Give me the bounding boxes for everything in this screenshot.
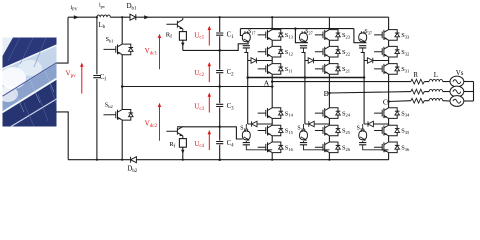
switch S12 bbox=[258, 46, 283, 57]
wire aux vertical 3 bbox=[363, 53, 365, 125]
switch S14 bbox=[258, 108, 283, 119]
capacitor C4 bbox=[216, 142, 223, 144]
wire PV positive stub bbox=[57, 17, 69, 63]
source Vs B bbox=[450, 86, 464, 97]
node bottom rail junction bbox=[271, 159, 273, 161]
diode clamp upper 2 bbox=[305, 60, 330, 62]
wire PV negative stub bbox=[57, 112, 69, 160]
svg-text:L: L bbox=[434, 72, 438, 79]
wire top rail bbox=[68, 16, 389, 18]
diode Db2 bbox=[131, 157, 137, 163]
arrow Vdc2 bbox=[159, 106, 161, 141]
wire bottom rail bbox=[68, 159, 389, 161]
transistor balancing lower bbox=[166, 127, 183, 136]
source Vs A bbox=[450, 76, 464, 87]
svg-text:C: C bbox=[383, 98, 388, 107]
capacitor C2 bbox=[216, 71, 223, 73]
capacitor flying upper 2 bbox=[300, 46, 307, 48]
switch S37 bbox=[359, 31, 367, 43]
resistor grid B bbox=[411, 89, 424, 94]
svg-text:R: R bbox=[413, 72, 418, 79]
switch S15 bbox=[258, 125, 283, 136]
node dc column mid bbox=[218, 85, 221, 88]
diode Db1 bbox=[130, 14, 136, 20]
switch S24 bbox=[315, 108, 340, 119]
wire phase 3 stack bbox=[388, 17, 390, 160]
node output B bbox=[328, 92, 331, 95]
switch S22 bbox=[315, 46, 340, 57]
diode clamp upper 3 bbox=[364, 60, 389, 62]
wire source B right bbox=[464, 91, 474, 93]
switch S13 bbox=[258, 30, 283, 41]
switch S17 bbox=[242, 31, 250, 43]
arrow Uc4 bbox=[208, 133, 210, 150]
switch S18 bbox=[242, 129, 250, 141]
node bottom rail junction bbox=[96, 159, 98, 161]
switch S23 bbox=[315, 30, 340, 41]
switch S35 bbox=[374, 125, 399, 136]
wire Rf lower to bottom rail bbox=[182, 147, 184, 160]
wire source C right bbox=[464, 100, 474, 102]
capacitor C1 bbox=[216, 33, 223, 35]
node stack A top bbox=[271, 16, 273, 18]
capacitor flying lower 2 bbox=[300, 143, 307, 145]
arrow current iPV bbox=[74, 15, 79, 19]
node dc column top bbox=[219, 16, 221, 18]
arrow Uc2 bbox=[208, 65, 210, 82]
inductor Lb bbox=[97, 15, 111, 17]
capacitor flying lower 1 bbox=[243, 143, 250, 145]
switch Sb2 bbox=[121, 87, 123, 160]
wire aux corner A bbox=[240, 29, 243, 36]
resistor grid C bbox=[411, 98, 424, 103]
switch S25 bbox=[315, 125, 340, 136]
node top rail junction bbox=[96, 16, 98, 18]
switch S33 bbox=[374, 30, 399, 41]
node upper bus B bbox=[294, 27, 297, 30]
source Vs C bbox=[450, 96, 464, 107]
wire aux vertical 1 bbox=[247, 53, 249, 125]
switch S38 bbox=[359, 129, 367, 141]
wire source A right bbox=[464, 81, 474, 83]
node output C bbox=[387, 100, 390, 103]
switch S32 bbox=[374, 46, 399, 57]
node upper bus stack B bbox=[328, 28, 330, 30]
wire rail2 bbox=[183, 44, 249, 51]
wire aux corner C bbox=[354, 29, 367, 43]
svg-text:S17: S17 bbox=[248, 29, 255, 35]
node aux bus 2 bbox=[304, 76, 307, 79]
arrow Uc3 bbox=[208, 96, 210, 113]
PV panel photo bbox=[0, 38, 57, 127]
inductor grid C bbox=[429, 99, 443, 101]
svg-text:iPV: iPV bbox=[71, 5, 79, 11]
resistor Rf upper bbox=[179, 32, 186, 41]
switch Sb1 bbox=[121, 17, 123, 86]
capacitor flying upper 3 bbox=[359, 46, 366, 48]
wire grid A bbox=[424, 81, 450, 83]
node aux bus 1 bbox=[246, 76, 249, 79]
capacitor Cf bbox=[96, 17, 98, 160]
arrow Uc1 bbox=[208, 29, 210, 46]
switch S11 bbox=[258, 64, 283, 75]
resistor grid A bbox=[411, 79, 424, 84]
diode clamp lower 2 bbox=[305, 123, 330, 125]
switch S21 bbox=[315, 64, 340, 75]
arrow current after Db1 bbox=[144, 15, 149, 19]
switch S26 bbox=[315, 142, 340, 153]
transistor balancing upper bbox=[166, 20, 183, 30]
capacitor flying lower 3 bbox=[359, 143, 366, 145]
resistor Rf lower bbox=[179, 139, 186, 148]
diode clamp lower 1 bbox=[248, 123, 273, 125]
capacitor flying upper 1 bbox=[243, 46, 250, 48]
wire Rf upper to rail2 bbox=[182, 40, 184, 50]
node dc column rail2 bbox=[218, 49, 221, 52]
node bottom rail junction bbox=[182, 159, 184, 161]
wire grid neutral bbox=[473, 82, 475, 102]
diode clamp lower 3 bbox=[364, 123, 389, 125]
node bottom rail junction bbox=[121, 159, 123, 161]
switch S34 bbox=[374, 108, 399, 119]
wire rail4 bbox=[177, 127, 243, 139]
node aux bus 3 bbox=[363, 76, 366, 79]
wire aux vertical 2 bbox=[304, 53, 306, 125]
node upper bus stack A bbox=[271, 28, 273, 30]
wire output A bbox=[272, 81, 411, 83]
wire aux corner B bbox=[295, 29, 308, 43]
svg-text:A: A bbox=[264, 78, 270, 87]
arrow Vpv bbox=[81, 66, 83, 94]
svg-text:ipv: ipv bbox=[99, 3, 106, 9]
svg-text:B: B bbox=[324, 89, 329, 98]
diode clamp upper 1 bbox=[248, 60, 273, 62]
wire rail3 midpoint bbox=[122, 86, 272, 88]
node bottom rail junction bbox=[328, 159, 330, 161]
wire output B bbox=[329, 92, 411, 93]
svg-text:S37: S37 bbox=[365, 29, 372, 35]
switch S36 bbox=[374, 142, 399, 153]
wire phase 2 stack bbox=[328, 17, 330, 160]
svg-text:S27: S27 bbox=[305, 29, 312, 35]
wire upper aux bus bbox=[240, 28, 354, 30]
switch S16 bbox=[258, 142, 283, 153]
node rail3 end bbox=[271, 85, 274, 88]
switch S31 bbox=[374, 64, 399, 75]
wire grid C bbox=[424, 100, 450, 102]
inductor grid A bbox=[429, 79, 443, 81]
node boost midpoint bbox=[121, 85, 124, 88]
node lower bus stack A bbox=[271, 77, 273, 79]
node output A bbox=[271, 80, 274, 83]
wire output C bbox=[389, 100, 411, 103]
node dc column bottom bbox=[218, 158, 221, 161]
switch S27 bbox=[300, 31, 308, 43]
node top rail junction bbox=[121, 16, 123, 18]
wire phase 1 stack bbox=[271, 17, 273, 160]
node dc column rail4 bbox=[218, 126, 221, 129]
wire dc-link column bbox=[219, 17, 221, 160]
switch S28 bbox=[300, 129, 308, 141]
capacitor C3 bbox=[216, 104, 223, 106]
arrow Vdc1 bbox=[159, 37, 161, 69]
wire lower aux bus bbox=[248, 77, 364, 79]
inductor grid B bbox=[429, 89, 443, 91]
wire grid B bbox=[424, 91, 450, 93]
